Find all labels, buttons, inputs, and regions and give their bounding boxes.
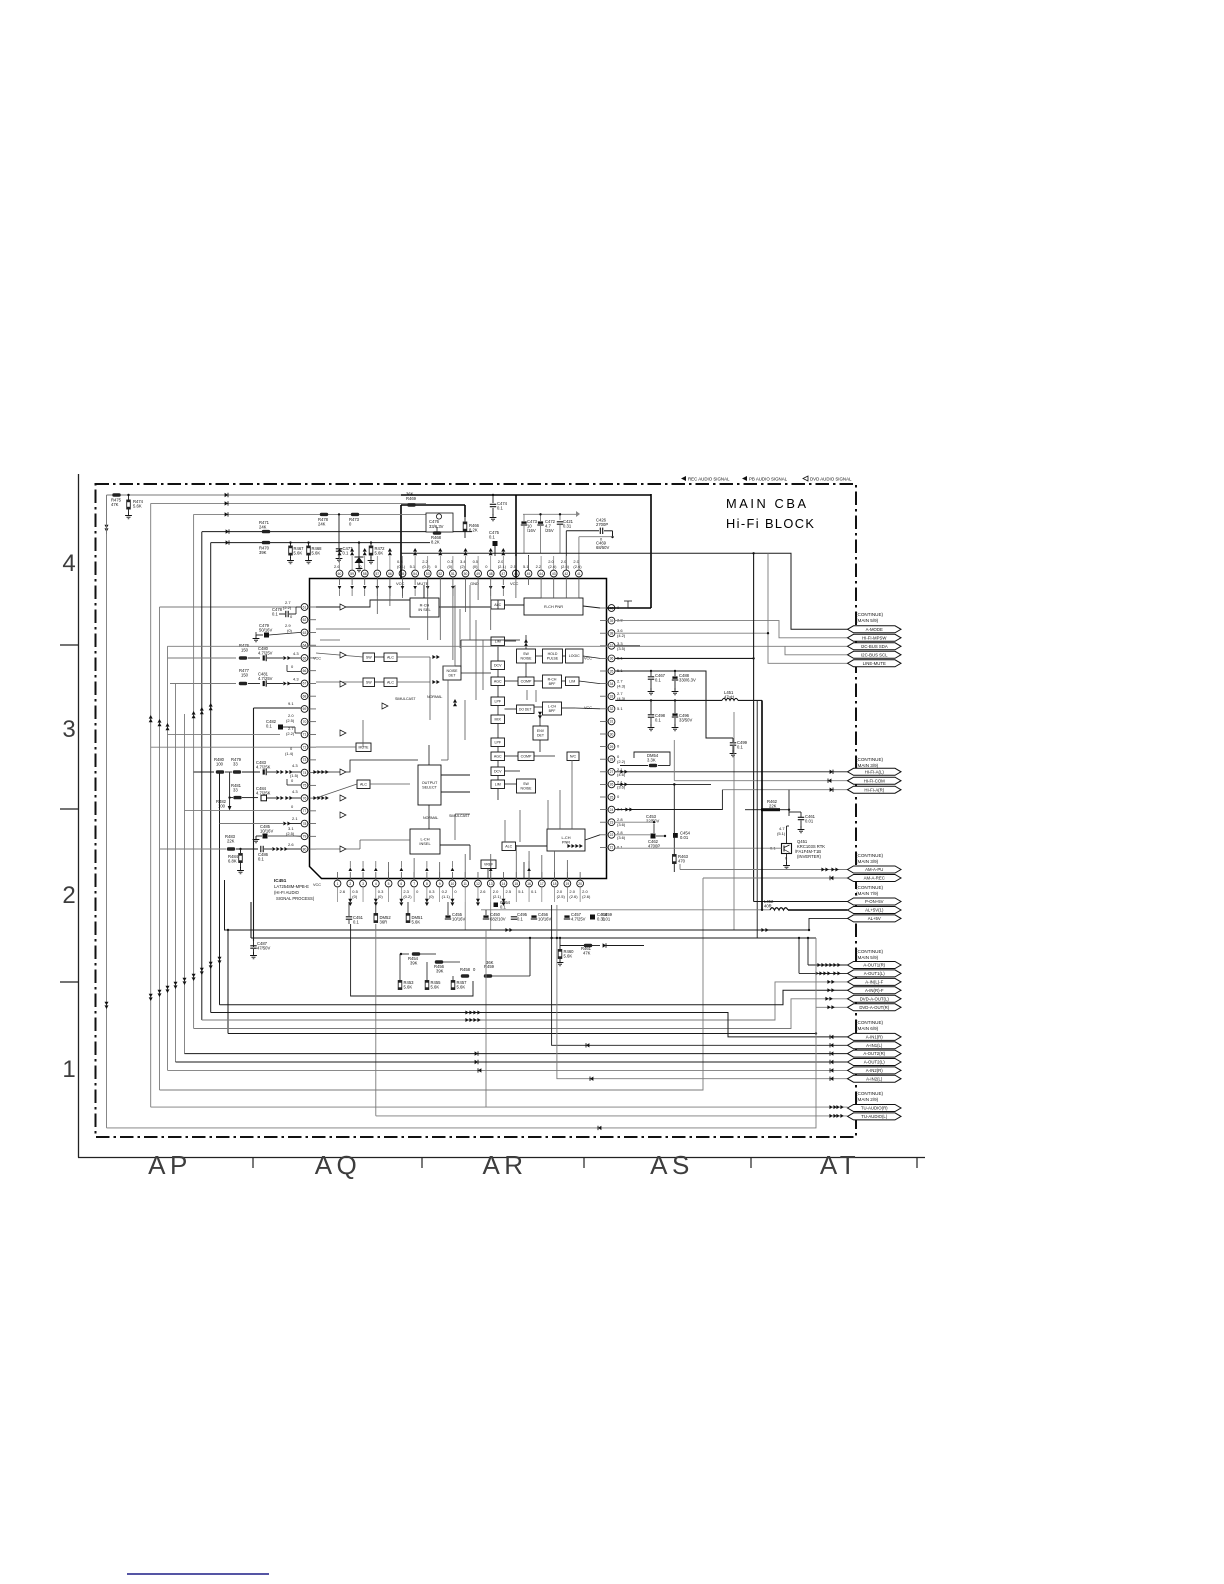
svg-text:6.8K: 6.8K [228, 858, 237, 863]
svg-text:(0): (0) [287, 628, 293, 633]
pin 79 [301, 833, 308, 840]
svg-text:2.5: 2.5 [506, 889, 512, 894]
svg-text:(3.6): (3.6) [617, 835, 626, 840]
svg-text:47uH: 47uH [724, 694, 734, 699]
wire pin45 to C-cluster [528, 555, 530, 570]
pin 66 [301, 667, 308, 674]
resistor R454 [400, 953, 402, 955]
svg-text:8.2K: 8.2K [469, 527, 478, 532]
capacitor C476 box [426, 513, 453, 532]
svg-text:NOISE: NOISE [521, 656, 533, 660]
svg-text:AL+5V(1): AL+5V(1) [865, 908, 884, 913]
svg-text:LPF: LPF [494, 741, 501, 745]
svg-text:61: 61 [303, 605, 307, 609]
pin 35 [608, 668, 615, 675]
svg-text:LINE-MUTE: LINE-MUTE [863, 661, 886, 666]
svg-text:50: 50 [464, 572, 468, 576]
connector A-OUT1(R) [848, 962, 902, 969]
wire HI-FI-A(R) [722, 789, 847, 791]
pin 13 [487, 880, 494, 887]
svg-text:10/16V: 10/16V [260, 829, 273, 834]
svg-text:32: 32 [610, 707, 614, 711]
svg-text:150: 150 [241, 673, 249, 678]
svg-text:(2.6): (2.6) [582, 894, 591, 899]
svg-text:2: 2 [62, 882, 75, 909]
svg-text:9.1: 9.1 [288, 701, 294, 706]
pin 36 [608, 655, 615, 662]
svg-text:A-OUT2(R): A-OUT2(R) [863, 1051, 885, 1056]
pin 47 [500, 570, 507, 577]
pin 25 [608, 794, 615, 801]
svg-text:DET: DET [449, 673, 457, 677]
svg-text:VCC: VCC [313, 883, 321, 887]
wire drop x486 [485, 930, 487, 1107]
svg-text:(0): (0) [473, 564, 479, 569]
pin 18 [551, 880, 558, 887]
resistor R453 [398, 981, 402, 990]
svg-text:(3.6): (3.6) [617, 822, 626, 827]
wire thick vertical x516 [515, 495, 517, 578]
svg-text:0.1: 0.1 [517, 916, 523, 921]
svg-text:72: 72 [303, 745, 307, 749]
svg-text:DCV: DCV [494, 770, 502, 774]
svg-text:53: 53 [426, 572, 430, 576]
block LPF 2 [491, 738, 505, 747]
svg-text:5.6K: 5.6K [564, 953, 573, 958]
svg-text:NOISE: NOISE [521, 786, 533, 790]
capacitor C469 [579, 536, 613, 538]
connector TU-AUDIO(L) [848, 1113, 902, 1120]
svg-text:2.6: 2.6 [340, 889, 346, 894]
pin 55 [399, 570, 406, 577]
capacitor C486 [236, 848, 258, 850]
svg-text:1: 1 [62, 1056, 75, 1083]
svg-text:(2.1): (2.1) [498, 564, 507, 569]
svg-text:MUTE: MUTE [417, 581, 429, 586]
connector P-ON+5V [848, 898, 902, 905]
capacitor C484 [242, 797, 258, 799]
pin 67 [301, 680, 308, 687]
capacitor C454 [673, 833, 678, 838]
pin 60 [336, 570, 343, 577]
svg-text:5.6K: 5.6K [133, 504, 142, 509]
svg-text:(2.5): (2.5) [286, 831, 295, 836]
pin 27 [608, 768, 615, 775]
svg-text:100: 100 [218, 803, 226, 808]
svg-text:(MAIN 7/9): (MAIN 7/9) [856, 891, 879, 896]
resistor R477 and capacitor C481 [170, 683, 236, 685]
pin 59 [349, 570, 356, 577]
block SW a [363, 653, 375, 662]
svg-text:41: 41 [577, 572, 581, 576]
svg-text:2.6: 2.6 [288, 842, 294, 847]
svg-text:DVD-A-OUT(L): DVD-A-OUT(L) [860, 996, 890, 1001]
connector DVD-A-OUT(L) [848, 995, 902, 1002]
block N/C [567, 752, 579, 761]
svg-text:(2.2): (2.2) [617, 759, 626, 764]
resistor R459 [484, 974, 492, 977]
svg-text:60: 60 [338, 572, 342, 576]
vertical x757 [756, 700, 758, 938]
wire TU-AUDIO(R) [151, 1106, 848, 1108]
svg-text:N/C: N/C [570, 755, 577, 759]
wire A-IN1(R) [211, 1013, 848, 1037]
svg-text:(2.2): (2.2) [283, 605, 292, 610]
svg-text:AS: AS [650, 1150, 694, 1180]
wire pin39 to HI-FI-MPSW [615, 621, 847, 638]
svg-text:SIMULCAST: SIMULCAST [449, 814, 470, 818]
block LOGIC [566, 649, 584, 663]
wire HI-FI-COM [673, 740, 675, 781]
svg-text:13: 13 [489, 882, 493, 886]
svg-text:6: 6 [400, 882, 402, 886]
pin 30 [608, 731, 615, 738]
pin 42 [563, 570, 570, 577]
svg-text:18: 18 [553, 882, 557, 886]
pin 21 [608, 844, 615, 851]
resistor R478 [320, 513, 328, 516]
svg-text:HI-FI-COM: HI-FI-COM [864, 778, 885, 783]
svg-text:AQ: AQ [315, 1150, 362, 1180]
pin 24 [608, 806, 615, 813]
svg-text:DVD-A-OUT(R): DVD-A-OUT(R) [859, 1005, 889, 1010]
pin 52 [437, 570, 444, 577]
svg-text:100: 100 [216, 762, 224, 767]
bus vertical x184 [184, 714, 186, 1054]
svg-text:AGC: AGC [494, 680, 502, 684]
wire LINE-MUTE [768, 553, 848, 663]
svg-text:AM-A-REC: AM-A-REC [864, 876, 885, 881]
svg-text:56: 56 [388, 572, 392, 576]
svg-text:2.8: 2.8 [617, 618, 623, 623]
svg-text:(CONTINUE): (CONTINUE) [856, 757, 884, 762]
wire A-OUT1(L) [799, 972, 848, 974]
svg-text:AGC: AGC [494, 755, 502, 759]
svg-text:4.3: 4.3 [293, 677, 299, 682]
svg-text:R-CH PNR: R-CH PNR [544, 604, 563, 609]
left ruler line [78, 474, 80, 1158]
connector A-IN1(R) [848, 1033, 902, 1040]
wire pin38 to LINE-MUTE via x768 [615, 632, 768, 634]
block SW b [363, 678, 375, 687]
svg-text:IN SEL: IN SEL [418, 607, 431, 612]
svg-text:VCC: VCC [313, 657, 321, 661]
svg-text:COMP: COMP [521, 680, 532, 684]
wire pin73 row [151, 746, 301, 748]
svg-text:12: 12 [476, 882, 480, 886]
svg-text:2.6: 2.6 [480, 889, 486, 894]
svg-text:DVD AUDIO SIGNAL: DVD AUDIO SIGNAL [810, 477, 852, 482]
block DCV 1 [491, 661, 505, 670]
svg-text:54: 54 [413, 572, 417, 576]
svg-text:(0.2): (0.2) [422, 564, 431, 569]
wire pin40 stub [615, 601, 628, 608]
capacitor C458 [590, 915, 595, 920]
bus arrows lower [149, 997, 153, 1001]
right mid wire box [733, 712, 735, 930]
svg-text:0.01: 0.01 [805, 819, 814, 824]
svg-text:LA72548M-MPB-E: LA72548M-MPB-E [274, 884, 309, 889]
svg-text:P-ON+5V: P-ON+5V [865, 899, 884, 904]
svg-text:IC451: IC451 [274, 878, 287, 883]
svg-text:2: 2 [349, 882, 351, 886]
pin 39 [608, 617, 615, 624]
capacitor C483 [242, 771, 260, 773]
svg-text:40R: 40R [764, 903, 772, 908]
block SW NOISE 1 [517, 649, 536, 663]
block R-CH BPF [543, 675, 562, 688]
block AGC 1 [491, 677, 505, 686]
svg-text:TU-AUDIO(R): TU-AUDIO(R) [861, 1106, 888, 1111]
svg-text:24: 24 [610, 808, 614, 812]
resistor R466 [464, 517, 466, 522]
top cluster wire [523, 513, 579, 515]
svg-text:0.1: 0.1 [531, 889, 537, 894]
pin 22 [608, 831, 615, 838]
svg-text:38: 38 [610, 632, 614, 636]
svg-text:22K: 22K [227, 839, 235, 844]
svg-text:4: 4 [62, 550, 75, 577]
resistor R483 [160, 848, 226, 850]
pin 51 [450, 570, 457, 577]
pin 76 [301, 795, 308, 802]
block ALC c [357, 780, 370, 789]
block R-CH PNR [524, 598, 583, 615]
column tick AS/AT [750, 1158, 752, 1169]
svg-text:28: 28 [610, 758, 614, 762]
resistor R481 [230, 797, 233, 799]
pin 4 [372, 880, 379, 887]
svg-text:5: 5 [388, 882, 390, 886]
svg-text:VCC: VCC [396, 581, 405, 586]
block MUTE small [356, 743, 371, 752]
svg-text:36K: 36K [406, 492, 414, 497]
pin 3 [360, 880, 367, 887]
svg-text:78: 78 [303, 822, 307, 826]
wire P-ON+5V [754, 901, 848, 903]
svg-text:R458: R458 [460, 967, 471, 972]
svg-text:ALC: ALC [387, 681, 394, 685]
bottom ruler line [78, 1157, 925, 1159]
arrows pin27 [620, 770, 623, 774]
pin 71 [301, 731, 308, 738]
pin 6 [398, 880, 405, 887]
svg-text:682/10V: 682/10V [490, 916, 506, 921]
svg-text:(MAIN 2/9): (MAIN 2/9) [856, 1097, 879, 1102]
svg-text:4.3: 4.3 [292, 763, 298, 768]
svg-text:SELECT: SELECT [422, 786, 437, 790]
svg-text:(5.1): (5.1) [777, 831, 786, 836]
svg-text:5.6K: 5.6K [457, 984, 466, 989]
svg-text:I2C-BUS SDA: I2C-BUS SDA [861, 644, 888, 649]
svg-text:4.3: 4.3 [292, 789, 298, 794]
pin 50 [462, 570, 469, 577]
svg-text:HI-FI-A(L): HI-FI-A(L) [865, 769, 885, 774]
svg-text:(1.1): (1.1) [442, 894, 451, 899]
wire pin11 drop [464, 902, 466, 930]
resistor R482 [185, 810, 301, 812]
svg-text:35: 35 [610, 669, 614, 673]
resistor R469 [407, 503, 415, 506]
wire top bus 5 [211, 542, 430, 544]
svg-text:69: 69 [303, 707, 307, 711]
vertical x753 P-ON feed [753, 553, 755, 901]
capacitor C421 [559, 514, 561, 520]
svg-text:0.1: 0.1 [489, 534, 495, 539]
svg-text:NORMAL: NORMAL [423, 816, 438, 820]
svg-text:47/50V: 47/50V [257, 946, 270, 951]
svg-text:68/50V: 68/50V [596, 545, 609, 550]
svg-text:34: 34 [610, 682, 614, 686]
capacitor C472 [540, 514, 542, 521]
svg-text:VREF: VREF [484, 862, 493, 866]
svg-text:0.1: 0.1 [353, 919, 359, 924]
svg-text:330/6.3V: 330/6.3V [679, 678, 696, 683]
svg-text:A-OUT2(L): A-OUT2(L) [864, 1060, 886, 1065]
pin 49 [475, 570, 482, 577]
svg-text:VCC: VCC [510, 581, 519, 586]
capacitor C462 [651, 834, 656, 839]
resistor R458 [461, 974, 469, 977]
bus vertical x150 [150, 503, 152, 1107]
svg-text:5.6K: 5.6K [404, 984, 413, 989]
pin 5 [385, 880, 392, 887]
svg-text:SIGNAL PROCESS): SIGNAL PROCESS) [276, 896, 315, 901]
legend PB AUDIO SIGNAL [742, 476, 747, 481]
svg-text:30: 30 [610, 732, 614, 736]
svg-text:(0): (0) [429, 894, 435, 899]
svg-text:23: 23 [610, 821, 614, 825]
svg-text:63: 63 [303, 631, 307, 635]
svg-text:LOGIC: LOGIC [569, 654, 580, 658]
svg-text:8: 8 [426, 882, 428, 886]
svg-text:48: 48 [489, 572, 493, 576]
svg-text:BPF: BPF [549, 709, 556, 713]
ruler tick row 3/2 [60, 808, 78, 810]
block L-CH INSEL [410, 829, 440, 854]
svg-text:(CONTINUE): (CONTINUE) [856, 885, 884, 890]
wire top bus 3 [194, 513, 437, 515]
block DO DET [517, 705, 535, 714]
svg-text:REC AUDIO SIGNAL: REC AUDIO SIGNAL [688, 477, 730, 482]
resistor DM51 [406, 914, 410, 923]
svg-text:A-MODE: A-MODE [866, 627, 883, 632]
capacitor C478 [289, 613, 296, 615]
svg-text:24K: 24K [318, 521, 326, 526]
resistor R460 [558, 950, 562, 959]
svg-text:AR: AR [482, 1150, 527, 1180]
block OUTPUT SELECT [418, 765, 441, 805]
svg-text:PULSE: PULSE [547, 656, 559, 660]
resistor R475 [112, 493, 120, 496]
svg-text:9: 9 [439, 882, 441, 886]
svg-text:(4.3): (4.3) [617, 684, 626, 689]
svg-text:47: 47 [501, 572, 505, 576]
svg-text:79: 79 [303, 835, 307, 839]
svg-text:51: 51 [451, 572, 455, 576]
connector A-IN2(R) [848, 1067, 902, 1074]
connector A-MODE [848, 626, 902, 633]
svg-text:59: 59 [350, 572, 354, 576]
svg-text:31: 31 [610, 720, 614, 724]
svg-text:70: 70 [303, 720, 307, 724]
svg-text:0.1: 0.1 [655, 678, 661, 683]
top pin stubs [339, 556, 341, 570]
wire pin71 row [168, 733, 281, 735]
svg-text:5.6K: 5.6K [294, 550, 303, 555]
pin 80 [301, 846, 308, 853]
pin 72 [301, 744, 308, 751]
resistor R476 and capacitor C480 [168, 657, 237, 659]
connector TU-AUDIO(R) [848, 1105, 902, 1112]
wire box bottom inner [225, 880, 810, 930]
resistor R479 [225, 771, 232, 773]
IC internal wires [339, 577, 341, 585]
pin69 VCC wire [254, 707, 301, 709]
svg-text:PNR: PNR [562, 840, 570, 845]
svg-text:64: 64 [303, 644, 307, 648]
connector AM-A-REC [848, 875, 902, 882]
bus vertical x159 [159, 607, 161, 1090]
connector LINE-MUTE [848, 660, 902, 667]
pin 33 [608, 693, 615, 700]
svg-text:0.01: 0.01 [680, 835, 689, 840]
svg-text:(MAIN 6/9): (MAIN 6/9) [856, 1026, 879, 1031]
pin 70 [301, 718, 308, 725]
svg-text:BPF: BPF [549, 682, 556, 686]
pin 45 [525, 570, 532, 577]
arrow on bus1 [225, 493, 228, 497]
svg-text:ALC: ALC [360, 783, 367, 787]
svg-text:22/50V: 22/50V [646, 819, 659, 824]
svg-text:(2): (2) [460, 564, 466, 569]
svg-text:33: 33 [233, 788, 238, 793]
connector I2C-BUS SCL [848, 651, 902, 658]
block LIM 3 [491, 780, 505, 789]
svg-text:45: 45 [527, 572, 531, 576]
connector HI-FI-A(L) [848, 768, 902, 775]
pin 48 [487, 570, 494, 577]
svg-text:SIMULCAST: SIMULCAST [395, 697, 416, 701]
capacitor C467 [650, 671, 652, 676]
svg-text:33/6.3V: 33/6.3V [429, 524, 444, 529]
svg-text:10: 10 [451, 882, 455, 886]
svg-text:5.6K: 5.6K [431, 984, 440, 989]
capacitor C495 [511, 916, 517, 918]
svg-text:75: 75 [303, 784, 307, 788]
svg-text:26: 26 [610, 783, 614, 787]
svg-text:39: 39 [610, 619, 614, 623]
capacitor C451 [348, 902, 350, 916]
svg-text:4.3: 4.3 [293, 651, 299, 656]
pin 14 [500, 880, 507, 887]
svg-text:HI-FI-MPSW: HI-FI-MPSW [862, 635, 887, 640]
wire drop pin4 column [375, 924, 377, 1116]
bus vertical x175 [175, 684, 177, 1063]
block NOISE DET [443, 666, 461, 680]
svg-text:36: 36 [610, 657, 614, 661]
svg-text:8.2K: 8.2K [431, 539, 440, 544]
resistor R468c [433, 531, 441, 534]
svg-text:16: 16 [527, 882, 531, 886]
svg-text:65: 65 [303, 656, 307, 660]
wire A-MODE [401, 553, 848, 629]
svg-text:0.1: 0.1 [258, 856, 264, 861]
wire top bus 2 [151, 502, 426, 504]
svg-text:(MAIN 5/9): (MAIN 5/9) [856, 618, 879, 623]
pin 23 [608, 819, 615, 826]
svg-text:15: 15 [514, 882, 518, 886]
